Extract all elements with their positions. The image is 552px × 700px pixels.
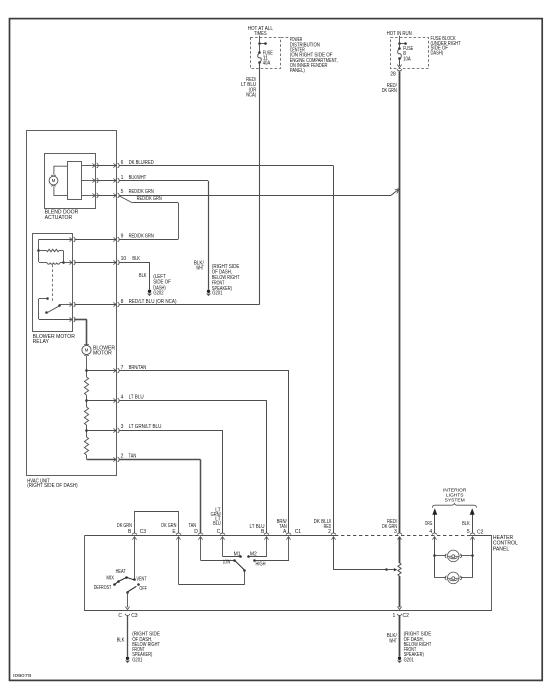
blower motor [82, 344, 91, 356]
relay switch contact + L wire to motor output pin [46, 297, 49, 300]
connector pin 28 at fuse block exit [399, 59, 401, 66]
svg-text:BLK/WHT: BLK/WHT [129, 175, 147, 181]
panel pin B (C1) [264, 533, 269, 540]
panel pin C [220, 533, 225, 540]
connector C3 jumper between pins B and E (DK GRN) [135, 512, 179, 534]
contact M1 [239, 555, 242, 558]
wire pin 5 to lamps [472, 537, 474, 578]
contact HIGH [253, 559, 256, 562]
wire pin 4 to lamps [434, 537, 436, 578]
contact OFF [137, 583, 140, 586]
svg-text:3: 3 [121, 424, 124, 430]
svg-text:28: 28 [390, 71, 396, 77]
relay pin connector y=304.8 [69, 302, 75, 307]
svg-text:M2: M2 [250, 551, 257, 557]
wire pin E to fan switch common [178, 537, 180, 584]
mode switch arm [126, 591, 129, 594]
dimmer wiper arrow [394, 568, 397, 571]
svg-text:TAN: TAN [189, 523, 197, 529]
svg-text:40A: 40A [263, 61, 271, 67]
svg-text:LT GRN/LT BLU: LT GRN/LT BLU [129, 424, 162, 430]
svg-text:G202: G202 [153, 290, 163, 296]
svg-text:HIGH: HIGH [256, 562, 266, 568]
svg-text:4: 4 [429, 529, 432, 535]
svg-text:RED/DK GRN: RED/DK GRN [137, 196, 163, 202]
contact DEFROST [113, 583, 116, 586]
svg-text:G201: G201 [212, 290, 222, 296]
svg-text:C: C [217, 529, 221, 535]
blend door actuator motor [49, 175, 58, 186]
svg-text:10A: 10A [403, 56, 411, 62]
wire RED/DK GRN from fuse 8 down to heater control panel pin 3 [399, 71, 401, 533]
relay pin connector y=239.3 [69, 237, 75, 242]
svg-text:LOW: LOW [223, 560, 231, 566]
contact VENT [133, 578, 136, 581]
wire relay to HVAC wall y=304.8 [74, 304, 116, 306]
relay pin connector y=319.4 [69, 317, 75, 322]
wire pin B to contact M2 [266, 537, 268, 557]
wire 4 LT BLU from resistor chain to panel [87, 400, 117, 402]
wire relay to HVAC wall y=262.0 [74, 262, 116, 264]
wire: hot feed into fuse 11 [259, 36, 261, 44]
panel pin 3 [397, 533, 402, 540]
svg-text:NCA): NCA) [246, 92, 256, 98]
contact LOW [233, 559, 236, 562]
svg-text:RED/DK GRN: RED/DK GRN [129, 189, 155, 195]
svg-text:WHT: WHT [196, 265, 204, 271]
actuator internal block [68, 162, 82, 200]
relay pin connector y=262.0 [69, 260, 75, 265]
svg-text:DK GRN: DK GRN [117, 523, 132, 529]
svg-text:BLK: BLK [132, 256, 140, 262]
illumination lamp 2 [435, 577, 446, 579]
panel pin 4 [432, 533, 437, 540]
splice arrow into RED/DK GRN feed [395, 189, 399, 194]
svg-text:RED/DK GRN: RED/DK GRN [129, 233, 155, 239]
actuator pin wire y=180.8 [82, 180, 95, 182]
ground G201 (upper) [206, 290, 211, 297]
svg-text:TAN: TAN [279, 524, 287, 530]
svg-text:OFF: OFF [139, 586, 147, 592]
svg-text:10: 10 [121, 256, 127, 262]
relay pin 10 internal wire [64, 262, 73, 264]
svg-text:E: E [172, 529, 176, 535]
svg-text:RED/LT BLU (OR NCA): RED/LT BLU (OR NCA) [129, 299, 177, 305]
svg-text:C1: C1 [295, 529, 302, 535]
panel pin D [198, 533, 203, 540]
wire pin B to mode switch [134, 537, 136, 580]
svg-text:2: 2 [121, 454, 124, 460]
svg-text:4: 4 [121, 395, 124, 401]
svg-text:1: 1 [393, 613, 396, 619]
svg-text:WHT: WHT [389, 638, 397, 644]
svg-text:5: 5 [121, 189, 124, 195]
node: bus stub fuse 11 [259, 43, 265, 45]
svg-text:RED: RED [324, 524, 332, 530]
wire pin A to contact HIGH [288, 537, 290, 560]
wire pin 2 to dimmer wiper [333, 537, 335, 570]
wire pin D to contact LOW [200, 537, 202, 560]
svg-text:ORG: ORG [425, 521, 433, 527]
svg-text:BLK: BLK [117, 638, 125, 644]
wire 3 LT GRN/LT BLU from resistor chain to panel [87, 430, 117, 432]
svg-text:M: M [52, 178, 56, 183]
arrow to interior lights (ORG) [434, 514, 436, 533]
svg-text:D: D [194, 529, 198, 535]
svg-text:LT BLU: LT BLU [129, 395, 144, 401]
svg-text:BLK: BLK [462, 521, 470, 527]
actuator pin wire y=165.8 [82, 165, 95, 167]
wire RED/LT BLU from fuse 11 down to relay pin 8 [259, 63, 261, 305]
wire relay to HVAC wall y=239.3 [74, 239, 116, 241]
illumination lamp 1 [433, 554, 436, 557]
actuator pin wire y=195.2 [82, 195, 95, 197]
svg-text:VENT: VENT [137, 577, 147, 583]
svg-text:6: 6 [121, 160, 124, 166]
svg-text:BLU: BLU [213, 521, 221, 527]
svg-text:MIX: MIX [106, 575, 114, 581]
svg-text:G201: G201 [132, 657, 142, 663]
node: bus stub fuse 8 [399, 43, 405, 45]
contact MIX [117, 580, 120, 583]
wire BLK/WHT to ground G201 (bottom right) [399, 615, 401, 656]
svg-text:I09078: I09078 [13, 673, 32, 678]
ground G202 [147, 290, 152, 297]
relay switch arm [45, 311, 48, 314]
mode switch track [114, 577, 134, 585]
HVAC unit box [27, 131, 117, 476]
arrow to interior lights (BLK) [472, 514, 474, 533]
panel pin E [176, 533, 181, 540]
svg-text:PANEL): PANEL) [290, 68, 305, 74]
fuse F11 40A [258, 53, 262, 63]
svg-text:DK GRN: DK GRN [382, 524, 397, 530]
wire: relay output to blower motor [74, 319, 87, 321]
svg-text:8: 8 [121, 299, 124, 305]
wire mode switch common to pin C (C3) [127, 592, 129, 607]
svg-text:1: 1 [121, 175, 124, 181]
panel pin 5 (C2) [470, 533, 475, 540]
svg-text:DK GRN: DK GRN [382, 88, 397, 94]
fan switch arm [243, 569, 246, 572]
dimmer rheostat on RED/DK GRN [399, 537, 401, 563]
svg-text:9: 9 [121, 233, 124, 239]
svg-text:DK BLU/RED: DK BLU/RED [129, 160, 155, 166]
wire: actuator motor to block [54, 166, 67, 175]
svg-text:5: 5 [467, 529, 470, 535]
svg-text:M1: M1 [234, 551, 241, 557]
svg-text:M: M [85, 348, 89, 353]
svg-text:PANEL: PANEL [493, 546, 509, 552]
svg-text:MOTOR: MOTOR [93, 351, 112, 357]
panel pin 2 [331, 533, 336, 540]
svg-text:TIMES: TIMES [254, 31, 267, 37]
blower motor relay box [33, 234, 73, 332]
contact M2 [247, 555, 250, 558]
svg-text:B: B [128, 529, 132, 535]
svg-text:C3: C3 [140, 529, 147, 535]
brace under interior lights system [432, 503, 476, 507]
wire pin C to contact M1 [222, 537, 224, 557]
svg-text:RELAY: RELAY [33, 339, 50, 345]
svg-text:(RIGHT SIDE OF DASH): (RIGHT SIDE OF DASH) [27, 483, 78, 489]
relay mechanical linkage (dashed) [52, 265, 54, 302]
ground G201 (bottom right) [397, 657, 402, 664]
blend door actuator box [45, 154, 96, 209]
fuse F8 10A [398, 49, 402, 60]
wire BLK to ground G201 (bottom left) [127, 615, 129, 656]
svg-text:BLK: BLK [139, 273, 147, 279]
svg-text:G201: G201 [404, 657, 414, 663]
svg-text:DK GRN: DK GRN [161, 523, 176, 529]
svg-text:ACTUATOR: ACTUATOR [45, 215, 73, 221]
svg-text:DASH): DASH) [431, 50, 444, 56]
svg-text:C3: C3 [131, 613, 138, 619]
svg-text:DEFROST: DEFROST [94, 585, 112, 591]
wire 7 BRN/TAN from resistor chain to panel [87, 370, 117, 372]
relay pin 8 internal wire [59, 304, 72, 306]
svg-text:C2: C2 [477, 530, 484, 536]
relay pin 9 internal wire [39, 239, 73, 241]
relay suppression resistor [39, 250, 47, 252]
contact HEAT [125, 576, 128, 579]
svg-text:SYSTEM: SYSTEM [445, 498, 465, 504]
svg-text:HEAT: HEAT [116, 569, 126, 575]
svg-text:TAN: TAN [129, 454, 137, 460]
panel pin A (C1) [286, 533, 291, 540]
heater control panel box [85, 535, 336, 537]
ground G201 (bottom left) [125, 657, 130, 664]
svg-text:LT BLU: LT BLU [250, 524, 265, 530]
relay coil [38, 251, 40, 262]
svg-text:C2: C2 [403, 613, 410, 619]
wire 2 TAN from resistor chain to panel [87, 459, 117, 461]
panel pin B (C3) [132, 533, 137, 540]
panel exit pin 1 (C2) [397, 607, 402, 616]
blower motor resistors chain [86, 356, 88, 377]
svg-text:C: C [118, 613, 122, 619]
